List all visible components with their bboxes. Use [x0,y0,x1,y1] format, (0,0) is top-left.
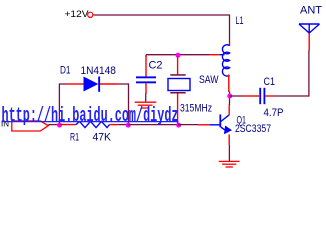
pin D1 cathode (red) [100,83,118,85]
node junction D1 left [57,123,62,128]
SAW resonator plate top [170,74,185,76]
pin C2 bottom (red) [145,83,147,94]
svg-text:1N4148: 1N4148 [81,65,116,77]
transistor Q1 base bar [219,115,221,128]
svg-text:SAW: SAW [199,74,219,86]
node junction SAW bottom [176,123,181,128]
watermark underline [2,121,179,123]
diode D1 cathode bar [98,77,100,92]
SAW resonator plate bottom [170,92,185,94]
ground (C2) [135,102,157,108]
svg-text:2SC3357: 2SC3357 [235,123,271,135]
diode bridge wire right corner [118,84,128,124]
capacitor C1 plate right [264,88,266,104]
wire L1 bottom to junction [229,92,231,97]
node junction D1 right [126,123,131,128]
ground (Q1 emitter) [219,161,240,167]
svg-text:D1: D1 [60,65,71,77]
svg-text:C2: C2 [149,59,163,71]
wire collector to junction [229,96,231,106]
node junction SAW top [176,53,181,58]
svg-text:R1: R1 [70,132,79,144]
pin Q1 base (red) [198,124,210,126]
wire C2 top corner [145,55,147,57]
diode D1 triangle [84,77,99,92]
capacitor C1 plate left [259,88,261,104]
transistor Q1 base lead [210,124,220,126]
svg-text:L1: L1 [236,15,244,27]
pin L1 tap (red) [209,54,220,56]
wire C2 to ground [145,94,147,102]
SAW resonator body [168,79,190,91]
pin C2 top (red) [145,56,147,77]
svg-text:315MHz: 315MHz [180,102,212,114]
node junction L1/C1/Q1 [227,94,232,99]
svg-text:C1: C1 [264,76,276,88]
transistor Q1 collector lead [221,115,229,122]
svg-text:4.7P: 4.7P [264,107,284,119]
antenna ANT [299,24,320,33]
wire +12V to L1 top [94,15,230,43]
wire IN to node [48,124,59,126]
capacitor C2 plate top [136,76,156,78]
diode D1 bridge wire left corner [59,84,68,124]
+12V terminal circle [88,12,93,17]
port IN connector [12,121,49,131]
pin D1 anode (red) [68,83,84,85]
inductor L1 [222,45,229,76]
pin R1 left (red) [59,124,76,126]
transistor Q1 emitter arrow [224,126,232,135]
transistor Q1 emitter lead [221,127,228,132]
pin SAW bottom (red) [177,94,179,124]
pin SAW top (red) [177,56,179,75]
pin Q1 collector (red) [228,105,230,116]
wire emitter to ground [228,145,230,161]
pin antenna (red) [308,33,310,51]
pin C1 right (red) [265,95,274,97]
wire junction to C1 [230,95,245,97]
wire tap line C2/SAW to L1 (maroon) [146,54,209,56]
pin R1 right (red) [110,124,119,126]
L1 tap stub (blue) [220,54,225,56]
pin L1 bottom (red) [228,75,230,93]
svg-text:ANT: ANT [300,5,322,17]
resistor R1 zigzag [76,121,110,127]
wire node to Q1 base [178,124,198,126]
pin C1 left (red) [244,95,259,97]
wire C1 to antenna [275,50,309,96]
svg-text:47K: 47K [93,132,112,144]
pin L1 top (red) [229,42,231,46]
wire R1 to node [118,124,128,126]
capacitor C2 plate bottom [136,81,156,83]
svg-text:+12V: +12V [65,9,90,20]
wire node to SAW node [129,124,178,126]
pin Q1 emitter (red) [228,135,230,146]
svg-text:http://hi.baidu.com/diydz: http://hi.baidu.com/diydz [2,105,179,128]
